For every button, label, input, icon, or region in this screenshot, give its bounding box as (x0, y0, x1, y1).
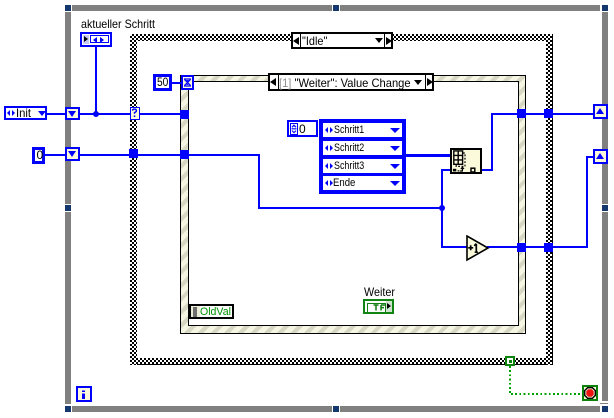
wire: vertical up from index array output (491, 114, 493, 171)
wire W2: vertical down to +1 (441, 209, 443, 248)
boolean terminal Weiter TF (363, 299, 394, 314)
while loop corner handle bottom-right (602, 406, 608, 412)
enum array constant (319, 119, 406, 194)
event timeout hourglass terminal (181, 75, 194, 90)
while loop mid handle right (602, 205, 608, 211)
wire W2: index input horizontal (441, 169, 451, 171)
tunnel case left W2 (129, 149, 138, 158)
wire W2: horizontal to junction (258, 207, 443, 209)
wire W3: into right shift register 2 (586, 156, 593, 158)
wire W2: vertical drop (258, 154, 260, 209)
numeric constant 0 (32, 147, 45, 164)
wire W1: ? tunnel to event tunnel (139, 113, 180, 115)
tunnel event left W1 (180, 110, 189, 119)
wire W1: vertical from indicator terminal (95, 47, 97, 114)
while loop right border (602, 12, 608, 204)
case selector ? tunnel (130, 107, 140, 120)
loop condition stop terminal (582, 385, 598, 401)
while loop bottom border (72, 406, 332, 412)
while loop corner handle top-left (65, 5, 71, 11)
case structure left border (130, 34, 137, 365)
while loop left border (65, 12, 71, 204)
case structure selector label (291, 32, 393, 49)
shift register right 1 (593, 104, 608, 119)
wire W2: shift register 2 to case tunnel (80, 154, 129, 156)
wire W1: Init to left shift register (47, 113, 65, 115)
green dotted wire horizontal (511, 393, 582, 395)
wire: case tunnel to shift register right top (552, 113, 593, 115)
enum element Ende (323, 176, 402, 190)
wire W3: +1 output to event tunnel (487, 246, 517, 248)
shift register left 1 (65, 107, 80, 120)
enum constant Init (4, 106, 47, 120)
event data node OldVal (189, 304, 234, 319)
enum element Schritt1 (323, 123, 402, 137)
indicator terminal aktueller Schritt (80, 32, 112, 47)
increment +1 node (465, 235, 491, 262)
wire W3: case tunnel to corner (553, 246, 587, 248)
constant 50 (153, 74, 172, 91)
wire W1 junction dot (93, 111, 99, 117)
wire W3: vertical up to shift register 2 (586, 156, 588, 248)
while loop mid handle top (333, 5, 339, 11)
while loop mid handle bottom (333, 406, 339, 412)
shift register right 2 (593, 149, 608, 164)
case structure bottom border (130, 358, 553, 365)
while loop top border (72, 5, 332, 11)
case structure top border (130, 34, 553, 41)
event structure selector label (268, 73, 434, 91)
index array node (450, 148, 482, 174)
tunnel event right W1 (517, 109, 526, 118)
iteration terminal i (76, 386, 92, 402)
label aktueller Schritt (81, 17, 155, 31)
tunnel case right W1 (544, 109, 553, 118)
wire W2: case tunnel to event tunnel (138, 154, 180, 156)
wire 50 to hourglass (172, 82, 181, 84)
wire W3: between tunnels right (526, 246, 544, 248)
label Weiter (364, 285, 395, 299)
enum element Schritt3 (323, 159, 402, 173)
wire: array constant to index array (thick) (406, 154, 450, 157)
tunnel event left W2 (180, 150, 189, 159)
wire W2: horizontal into +1 (441, 246, 468, 248)
array index display (287, 120, 318, 137)
shift register left 2 (65, 147, 80, 161)
tunnel event right W3 (517, 243, 526, 252)
tunnel case right W3 (544, 243, 553, 252)
event structure border (180, 75, 526, 334)
green tunnel case bottom (505, 356, 515, 366)
event structure inner area (188, 81, 519, 326)
wire W1: shift register to ? tunnel (80, 113, 130, 115)
case structure right border (546, 34, 553, 365)
wire W2: 0 constant to left shift register 2 (45, 154, 65, 156)
while loop corner handle top-right (602, 5, 608, 11)
wire: index array output (482, 169, 492, 171)
wire: between event and case tunnels right top (526, 113, 544, 115)
green dotted wire vertical (509, 366, 511, 394)
wire: horizontal to event tunnel right (491, 113, 518, 115)
wire W2 junction dot (439, 205, 445, 211)
while loop mid handle left (65, 205, 71, 211)
wire W2: vertical up to index input (441, 169, 443, 209)
while loop corner handle bottom-left (65, 406, 71, 412)
wire W2: event tunnel to corner (189, 154, 260, 156)
enum element Schritt2 (323, 141, 402, 155)
